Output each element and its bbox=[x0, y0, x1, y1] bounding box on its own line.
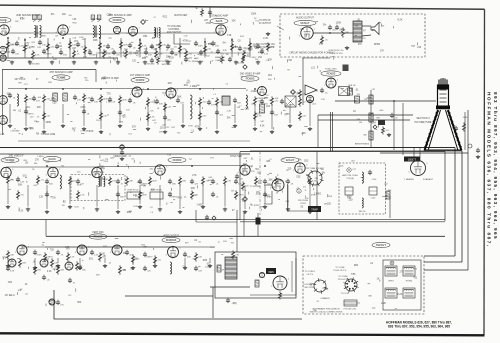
svg-text:T85: T85 bbox=[351, 273, 356, 276]
resistor 3R30 bbox=[191, 190, 199, 199]
svg-text:T61: T61 bbox=[70, 181, 73, 183]
title line 2 bbox=[388, 325, 450, 329]
wire row1 drop 3 bbox=[69, 38, 71, 58]
svg-text:2ND VIDEO IF: 2ND VIDEO IF bbox=[8, 156, 24, 158]
wire row1 drop 6 bbox=[120, 38, 122, 58]
svg-text:L21: L21 bbox=[311, 67, 316, 70]
junction row3 j2 bbox=[191, 165, 193, 167]
svg-text:L63: L63 bbox=[266, 105, 271, 108]
label vert hold bbox=[150, 190, 162, 192]
svg-text:KEYED AGC: KEYED AGC bbox=[92, 171, 105, 174]
wire row3 drop 11 bbox=[244, 185, 246, 209]
annotation noise row2 bbox=[0, 90, 307, 136]
resistor 4R14 bbox=[232, 250, 240, 259]
wire sync drop bbox=[302, 58, 304, 105]
tube V26 small marker bbox=[259, 272, 264, 278]
label 1st video if bbox=[130, 74, 151, 77]
svg-text:33K: 33K bbox=[219, 102, 223, 104]
svg-text:.047: .047 bbox=[73, 41, 78, 43]
label row4 a bbox=[89, 234, 107, 239]
wire row3 drop 7 bbox=[159, 185, 161, 207]
dashed box AGC section bbox=[71, 175, 125, 201]
svg-text:PLUG P.S.: PLUG P.S. bbox=[338, 279, 348, 281]
wire row1 drop 4 bbox=[84, 38, 86, 58]
ground row1 g1 bbox=[28, 61, 32, 65]
wire vert out loop bbox=[250, 258, 296, 295]
capacitor 2C1 bbox=[8, 93, 16, 100]
svg-text:SWITCH: SWITCH bbox=[162, 64, 171, 66]
svg-text:T28: T28 bbox=[50, 249, 55, 251]
wire bottom run a bbox=[54, 290, 302, 319]
resistor 2R12 bbox=[147, 97, 156, 106]
wire bus C bbox=[250, 150, 462, 152]
wire row4 link bbox=[22, 246, 174, 248]
wire hv up a bbox=[413, 148, 415, 161]
tube V3b diode bbox=[113, 26, 120, 33]
note pincushion1 bbox=[313, 308, 340, 311]
svg-text:100K: 100K bbox=[339, 166, 344, 168]
ground row3 g14 bbox=[308, 210, 312, 214]
label under R76 bbox=[347, 198, 351, 200]
speaker LS1 bbox=[371, 23, 379, 35]
tube V14b row3 bbox=[46, 167, 61, 177]
title line 1 bbox=[386, 321, 452, 325]
ground row4 g4 bbox=[103, 264, 107, 268]
svg-text:2.2K: 2.2K bbox=[149, 111, 154, 113]
wire above box h bbox=[196, 221, 237, 223]
capacitor 4C6 bbox=[90, 250, 99, 257]
svg-text:893 Thru 897, 953, 954, 955, 9: 893 Thru 897, 953, 954, 955, 963, 964, 9… bbox=[493, 92, 498, 240]
wire yoke elbow b bbox=[424, 261, 462, 263]
svg-text:47: 47 bbox=[218, 242, 220, 244]
svg-text:56K: 56K bbox=[156, 45, 161, 47]
wire row2 link c bbox=[171, 88, 246, 90]
svg-text:R40: R40 bbox=[347, 195, 352, 198]
svg-text:FOCUS COIL: FOCUS COIL bbox=[344, 309, 358, 311]
svg-text:2 SOUND: 2 SOUND bbox=[145, 64, 155, 66]
svg-text:.047: .047 bbox=[186, 83, 191, 85]
tube V23 rect b bbox=[40, 259, 48, 267]
svg-text:CONTROL: CONTROL bbox=[168, 29, 180, 31]
svg-text:33K: 33K bbox=[37, 107, 42, 109]
annotation noise yoke bbox=[311, 262, 418, 312]
svg-text:470K: 470K bbox=[463, 117, 468, 119]
junction row3 j1 bbox=[117, 165, 119, 167]
wire row3 link a bbox=[6, 166, 97, 168]
capacitor 3C25 bbox=[45, 192, 53, 199]
tube V7a left edge bbox=[0, 46, 7, 53]
wire row4 drop 4 bbox=[104, 258, 106, 263]
resistor 3R26 bbox=[77, 190, 85, 199]
wire audio plate bbox=[313, 32, 353, 34]
svg-text:.05: .05 bbox=[250, 204, 253, 206]
coil L5 peaking bbox=[17, 94, 19, 106]
crystal X2 box bbox=[339, 87, 350, 96]
svg-text:5%: 5% bbox=[242, 201, 245, 203]
wire bus E drop bbox=[467, 110, 469, 270]
label row2 oval d bbox=[241, 76, 259, 81]
capacitor 1C19 bbox=[194, 41, 203, 48]
junction row3 j3 bbox=[264, 165, 266, 167]
ground row2 g7 bbox=[146, 127, 150, 131]
capacitor C95 filter bbox=[42, 275, 50, 282]
capacitor 1C2 bbox=[15, 41, 24, 48]
capacitor 3C31 bbox=[211, 192, 219, 199]
svg-text:FD683: FD683 bbox=[113, 18, 122, 22]
svg-text:1ST PIX IF: 1ST PIX IF bbox=[14, 79, 26, 81]
svg-text:10K: 10K bbox=[17, 290, 21, 292]
label 3rd sound if amp bbox=[108, 14, 132, 17]
ground row2 g6 bbox=[118, 124, 122, 128]
svg-text:33K: 33K bbox=[268, 179, 273, 182]
annotation noise row1 bbox=[6, 34, 273, 65]
transformer T3 ratio det bbox=[154, 28, 160, 38]
svg-text:1 MEG: 1 MEG bbox=[27, 114, 34, 116]
label crt right bbox=[463, 117, 468, 119]
label row1 foot note2 bbox=[145, 64, 155, 66]
svg-text:33K: 33K bbox=[124, 50, 129, 52]
svg-text:2.2K: 2.2K bbox=[101, 79, 106, 81]
tube V8 1st pix IF bbox=[130, 87, 145, 97]
svg-text:R28: R28 bbox=[93, 39, 98, 42]
ground row3 g6 bbox=[138, 205, 142, 209]
svg-text:2ND VIDEO IF AMP: 2ND VIDEO IF AMP bbox=[240, 73, 261, 76]
svg-text:SECTION 4: SECTION 4 bbox=[416, 117, 430, 120]
capacitor 3C29 bbox=[168, 192, 178, 199]
svg-text:.001: .001 bbox=[130, 269, 135, 271]
svg-text:2.2K: 2.2K bbox=[381, 302, 386, 305]
svg-text:10K: 10K bbox=[54, 263, 58, 265]
svg-text:12AU7: 12AU7 bbox=[286, 158, 295, 162]
box vertical output section bbox=[215, 252, 296, 298]
wire row3 drop 0 bbox=[7, 185, 9, 204]
svg-text:.002: .002 bbox=[255, 192, 260, 195]
label row4 c bbox=[372, 242, 390, 247]
svg-text:47: 47 bbox=[211, 61, 213, 63]
svg-text:T63: T63 bbox=[356, 94, 359, 96]
capacitor 1C8 bbox=[76, 42, 84, 49]
svg-text:56K: 56K bbox=[376, 118, 380, 120]
label row3 d bbox=[281, 157, 299, 162]
svg-text:27K: 27K bbox=[60, 305, 64, 307]
label crt cluster bbox=[379, 110, 385, 112]
resistor R41 boxed bbox=[63, 93, 68, 101]
ground row1 g10 bbox=[256, 61, 260, 65]
resistor 4R3 bbox=[44, 252, 53, 261]
resistor 1R14 bbox=[139, 41, 147, 50]
label volume control C bbox=[167, 31, 182, 34]
box sweep section bottom double bbox=[240, 220, 445, 222]
resistor R95 bbox=[19, 258, 27, 267]
label 2nd sound if amp bbox=[16, 14, 40, 17]
wire ladder bbox=[370, 90, 372, 148]
svg-text:1 MEG: 1 MEG bbox=[231, 47, 238, 49]
svg-text:27K: 27K bbox=[35, 158, 40, 161]
resistor 1R1 bbox=[7, 40, 15, 49]
resistor 2R14 bbox=[164, 102, 172, 111]
svg-text:SPKR: SPKR bbox=[374, 44, 381, 46]
note junction 2 bbox=[330, 53, 344, 55]
junction row2 j0 bbox=[25, 88, 27, 90]
resistor R65 box bbox=[355, 96, 360, 103]
tube V12c below triangle bbox=[306, 95, 313, 102]
wire row2 drop 0 bbox=[9, 104, 11, 123]
resistor 4R17 bbox=[57, 265, 65, 274]
winding yoke vert 1 bbox=[385, 266, 397, 276]
note audio socket1 bbox=[253, 43, 275, 46]
wire vert pair b bbox=[332, 112, 334, 152]
capacitor C30 coupling bbox=[328, 25, 337, 32]
svg-text:8.2K: 8.2K bbox=[223, 50, 228, 52]
svg-text:REAR OF: REAR OF bbox=[215, 56, 225, 59]
resistor 1bR7 bbox=[103, 49, 111, 58]
wire volume tap bbox=[174, 34, 190, 44]
resistor 3R15 bbox=[202, 176, 210, 185]
svg-text:COIL(S): COIL(S) bbox=[346, 178, 354, 180]
label ratio det bbox=[174, 14, 188, 17]
label row3 a bbox=[1, 157, 19, 162]
winding yoke horiz 1 bbox=[403, 266, 415, 276]
svg-text:100K: 100K bbox=[205, 267, 211, 269]
wire above box bbox=[236, 210, 238, 252]
svg-text:6W4GT: 6W4GT bbox=[376, 243, 386, 247]
ground row1 g4 bbox=[94, 61, 98, 65]
svg-text:C89: C89 bbox=[107, 14, 112, 17]
label V6 audio output type bbox=[294, 20, 316, 25]
resistor R16b bbox=[221, 55, 224, 63]
svg-text:100K: 100K bbox=[336, 22, 342, 25]
wire row1 drop 2 bbox=[47, 38, 49, 58]
svg-text:OF T.V.: OF T.V. bbox=[307, 274, 314, 276]
annotation noise audio box bbox=[289, 18, 421, 52]
tube V20 row4 bbox=[75, 245, 90, 255]
svg-text:2.2K: 2.2K bbox=[264, 54, 269, 56]
svg-text:.047: .047 bbox=[296, 92, 301, 95]
svg-text:33K: 33K bbox=[34, 163, 38, 165]
ground crt cluster bbox=[387, 133, 391, 137]
box sweep section left bbox=[239, 152, 241, 220]
svg-text:C91: C91 bbox=[245, 109, 250, 111]
capacitor 3C6 bbox=[76, 179, 85, 186]
label 117v bbox=[5, 294, 16, 297]
resistor R40 boxed bbox=[53, 93, 58, 101]
HV label dark box bbox=[404, 157, 420, 162]
svg-text:1 MEG: 1 MEG bbox=[146, 257, 153, 259]
svg-text:8.2K: 8.2K bbox=[19, 211, 24, 213]
wire row2 drop 15 bbox=[289, 104, 291, 123]
wire below v13 b bbox=[257, 213, 259, 236]
capacitor 2C30 bbox=[118, 110, 126, 117]
svg-text:2ND SOUND IF AMP: 2ND SOUND IF AMP bbox=[16, 14, 40, 17]
svg-text:56K: 56K bbox=[29, 128, 34, 130]
resistor 4R7 bbox=[99, 252, 107, 261]
note yoke b2 bbox=[304, 287, 314, 289]
capacitor C16b bbox=[184, 57, 188, 62]
coil L30 pincushion bbox=[362, 172, 363, 183]
label V3 type bbox=[109, 17, 125, 22]
fuse dark component bbox=[256, 218, 261, 225]
svg-text:10K: 10K bbox=[89, 130, 94, 133]
annotation noise sync mid bbox=[258, 56, 334, 101]
wire row3 drop 1 bbox=[27, 185, 29, 207]
ground row2 g12 bbox=[233, 124, 237, 128]
svg-text:R82: R82 bbox=[265, 195, 270, 198]
capacitor 2C25 bbox=[308, 99, 317, 106]
resistor 1bR9 bbox=[125, 49, 134, 58]
svg-text:.001: .001 bbox=[267, 74, 272, 77]
capacitor 2C21 bbox=[260, 99, 269, 106]
wire vert out loop2 bbox=[291, 261, 293, 292]
ground audio box bbox=[345, 46, 349, 50]
svg-text:.01: .01 bbox=[266, 95, 269, 97]
svg-text:1K: 1K bbox=[33, 261, 36, 263]
resistor ladder RL2 bbox=[369, 131, 373, 140]
capacitor 2C36 bbox=[270, 110, 279, 117]
svg-text:4 WAFER: 4 WAFER bbox=[320, 297, 330, 300]
wire row2 section side bbox=[95, 70, 97, 83]
svg-text:1ST AUDIO AMP: 1ST AUDIO AMP bbox=[210, 15, 229, 18]
junction row1 j4 bbox=[139, 39, 141, 41]
top border line bbox=[0, 5, 485, 9]
wire bus E right bbox=[380, 152, 468, 154]
socket P1 yoke plug bbox=[312, 278, 327, 294]
svg-text:PICTURE TUBE: PICTURE TUBE bbox=[415, 122, 432, 124]
ground row4 g3 bbox=[78, 266, 82, 270]
ground row1 g5 bbox=[116, 61, 120, 65]
svg-text:680: 680 bbox=[51, 98, 56, 100]
annotation noise sweep left bbox=[245, 168, 304, 209]
svg-text:R95: R95 bbox=[142, 58, 147, 60]
svg-text:8.2K: 8.2K bbox=[20, 18, 25, 21]
tube V14 row3 bbox=[0, 167, 14, 177]
CRT funnel bbox=[424, 110, 461, 151]
svg-text:1K: 1K bbox=[377, 278, 380, 280]
svg-text:VERT: VERT bbox=[388, 281, 394, 283]
resistor 3R32 bbox=[235, 190, 244, 199]
wire row2 drop 6 bbox=[119, 104, 121, 123]
svg-text:1 MEG: 1 MEG bbox=[197, 205, 204, 207]
wire row1 drop 8 bbox=[159, 38, 161, 58]
svg-text:5%: 5% bbox=[248, 50, 251, 52]
resistor 3R28 bbox=[139, 190, 148, 199]
marker circled B2 bbox=[347, 168, 351, 172]
marker circled A bbox=[297, 189, 301, 194]
capacitor 2C15 bbox=[176, 98, 185, 105]
resistor 2R37 bbox=[299, 111, 308, 120]
box sweep inner partition bbox=[316, 152, 318, 220]
svg-text:100K: 100K bbox=[207, 180, 212, 182]
wire row2 drop 13 bbox=[254, 104, 256, 126]
svg-text:TO COIL: TO COIL bbox=[341, 293, 350, 295]
svg-text:47: 47 bbox=[154, 122, 156, 124]
resistor 3R19 bbox=[255, 176, 263, 185]
capacitor C64 bus end bbox=[120, 150, 124, 155]
label 2 sound bbox=[80, 131, 90, 133]
label to sound a bbox=[250, 186, 261, 188]
svg-text:33K: 33K bbox=[94, 102, 98, 104]
capacitor C63 right bbox=[476, 148, 480, 153]
resistor 2R35 bbox=[254, 111, 262, 120]
resistor R19 top bbox=[201, 8, 204, 16]
resistor R97 bbox=[76, 261, 84, 270]
capacitor 4C4 bbox=[56, 250, 64, 257]
svg-text:T HEATER: T HEATER bbox=[404, 178, 414, 181]
svg-text:5%: 5% bbox=[267, 184, 270, 186]
svg-text:5%: 5% bbox=[372, 30, 375, 32]
label row2 head1 bbox=[14, 79, 26, 81]
svg-text:10K: 10K bbox=[159, 132, 163, 134]
wire v13 left b bbox=[264, 191, 272, 204]
note to pin2 bbox=[259, 23, 272, 25]
svg-text:AUDIO OUTPUT: AUDIO OUTPUT bbox=[296, 17, 315, 20]
svg-text:27K: 27K bbox=[77, 100, 81, 102]
label picture tube 2 bbox=[415, 122, 432, 124]
junction row3 j0 bbox=[46, 165, 48, 167]
svg-text:.047: .047 bbox=[162, 125, 166, 127]
label drive coil bbox=[188, 61, 204, 63]
label filament bbox=[423, 178, 434, 181]
capacitor 1bC17 bbox=[260, 49, 269, 56]
ground row2 g16 bbox=[308, 127, 312, 131]
wire pincush elbow bbox=[386, 196, 391, 218]
label row4 head2 bbox=[163, 236, 180, 238]
svg-text:220: 220 bbox=[166, 56, 171, 59]
svg-text:27K: 27K bbox=[258, 183, 262, 185]
svg-text:33K: 33K bbox=[266, 161, 271, 163]
svg-text:RATIO DET: RATIO DET bbox=[174, 14, 188, 17]
svg-text:33K: 33K bbox=[268, 79, 272, 81]
ground row3 g4 bbox=[95, 208, 99, 212]
note yoke a1 bbox=[305, 271, 317, 273]
label audio output bbox=[296, 17, 315, 20]
wire crt lead b bbox=[318, 119, 410, 121]
wire row2 section left bbox=[2, 70, 4, 136]
resistor 1bR11 bbox=[155, 49, 163, 58]
capacitor 2C28 bbox=[82, 109, 90, 116]
svg-text:L18: L18 bbox=[6, 51, 11, 54]
tube V25 vert output bbox=[271, 276, 290, 290]
annotation noise row4 bbox=[2, 239, 233, 273]
svg-text:470K: 470K bbox=[135, 196, 140, 198]
svg-text:PLUG OF T.V.: PLUG OF T.V. bbox=[333, 270, 346, 272]
resistor R98 cathode bbox=[279, 291, 282, 299]
label sync tube type bbox=[321, 71, 341, 76]
ground row2 g13 bbox=[253, 127, 257, 131]
svg-text:2.2K: 2.2K bbox=[257, 116, 262, 118]
resistor 1R7 bbox=[69, 40, 77, 49]
svg-text:TO AGC LINE: TO AGC LINE bbox=[41, 133, 56, 136]
ground row4 g5 bbox=[131, 266, 135, 270]
capacitor 2C3 bbox=[32, 96, 41, 103]
label V5 type bbox=[210, 18, 228, 23]
box sweep section right bbox=[444, 152, 446, 222]
resistor 3R5 bbox=[69, 176, 77, 185]
wire row4 drop 0 bbox=[7, 258, 9, 263]
test point TP1 bbox=[141, 20, 146, 25]
capacitor C71 crt grid bbox=[390, 113, 398, 120]
svg-text:HOFFMAN MODELS 636, 637, 880 T: HOFFMAN MODELS 636, 637, 880 Thru 887, bbox=[487, 92, 492, 248]
wire row2 drop 16 bbox=[309, 104, 311, 126]
svg-text:SECTION: SECTION bbox=[304, 287, 314, 289]
wire sync rail bbox=[302, 57, 330, 59]
resistor 2R20 bbox=[254, 96, 262, 105]
resistor 2R10 bbox=[119, 95, 128, 104]
resistor 2R24 bbox=[299, 97, 307, 106]
svg-text:5%: 5% bbox=[323, 24, 326, 26]
wire row4 drop 1 bbox=[34, 258, 36, 265]
resistor 3R17 bbox=[224, 176, 232, 185]
svg-text:R43: R43 bbox=[178, 197, 183, 200]
